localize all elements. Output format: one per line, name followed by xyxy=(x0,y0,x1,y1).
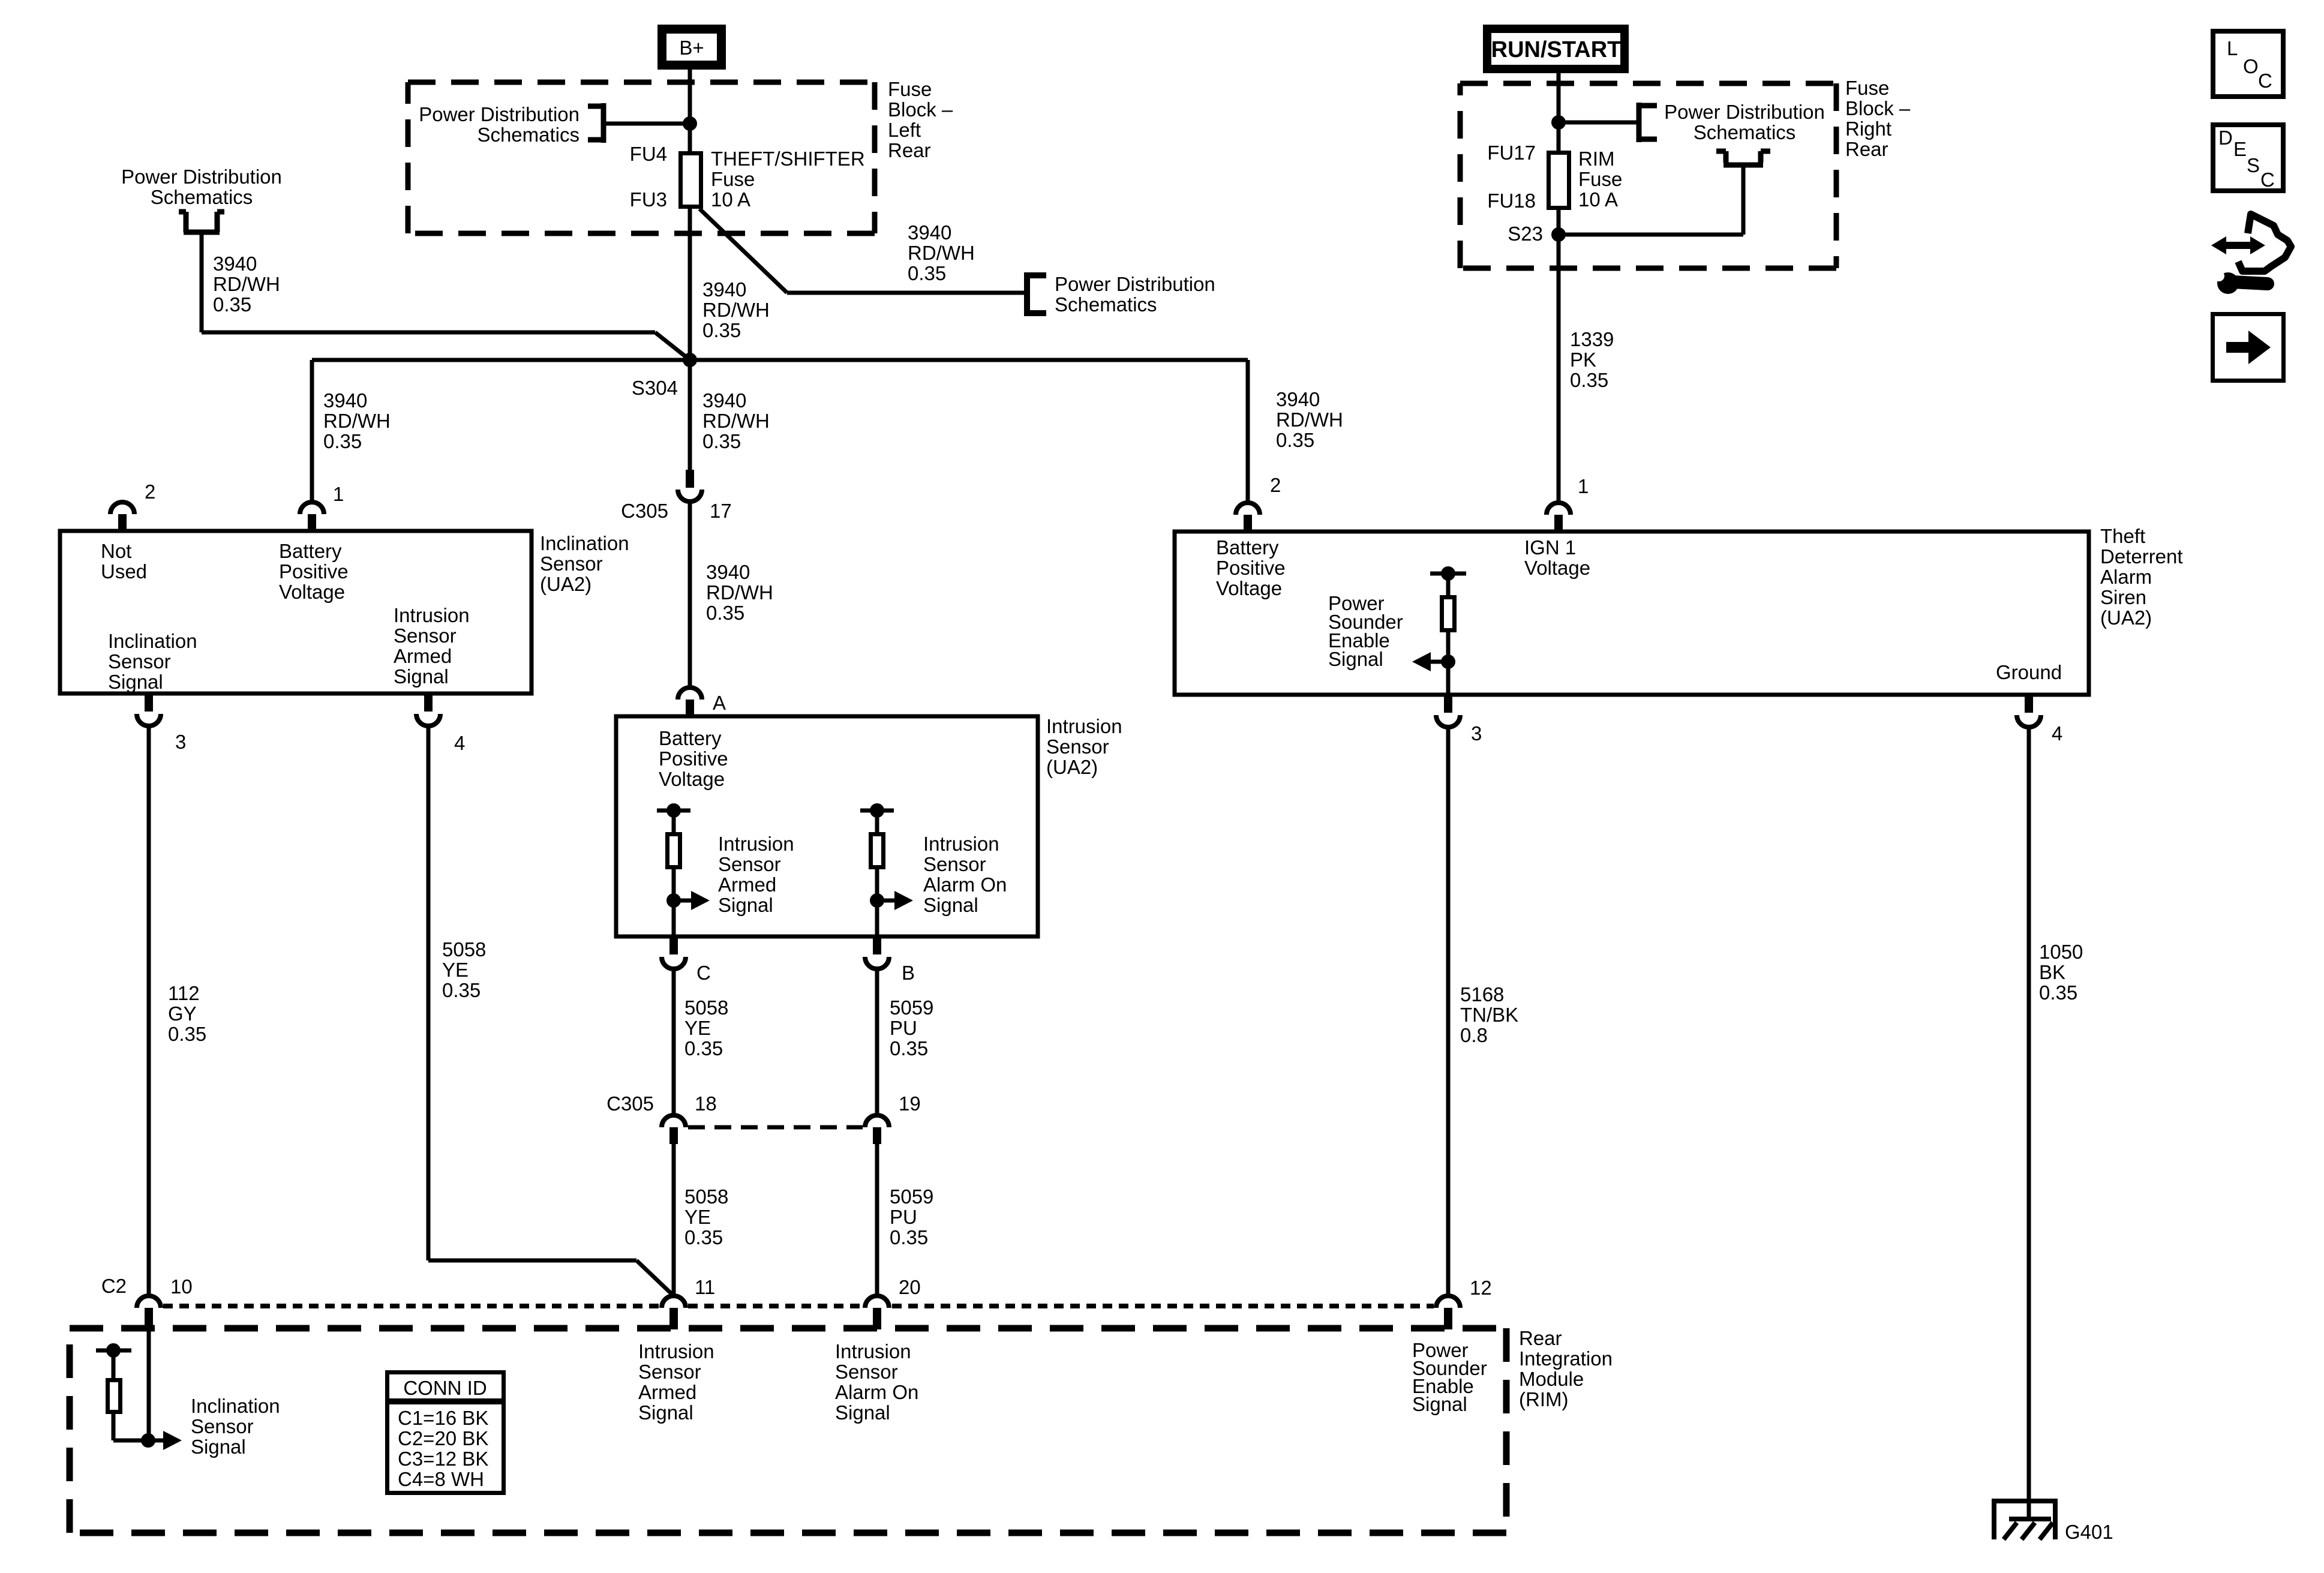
svg-text:0.35: 0.35 xyxy=(890,1226,928,1248)
svg-text:3940: 3940 xyxy=(702,389,746,412)
label FU4 xyxy=(630,143,667,165)
svg-text:Armed: Armed xyxy=(718,873,776,896)
wire FU18 to theft siren pin 1 xyxy=(1557,210,1561,502)
svg-text:Fuse: Fuse xyxy=(1845,77,1889,99)
label wire 5059 PU 0.35 (to pin 20) xyxy=(890,1185,933,1248)
svg-text:Alarm On: Alarm On xyxy=(923,873,1007,896)
svg-text:11: 11 xyxy=(695,1276,715,1298)
wire FU3 diagonal to power distribution schematics xyxy=(699,209,1024,293)
svg-text:0.35: 0.35 xyxy=(323,430,362,452)
junction dot at RUN/START stem xyxy=(1551,115,1566,130)
svg-text:Schematics: Schematics xyxy=(151,186,253,208)
svg-text:Positive: Positive xyxy=(659,748,728,770)
wire armed junction to pin C xyxy=(672,900,676,936)
label Not Used xyxy=(101,540,147,583)
svg-text:10: 10 xyxy=(170,1275,193,1298)
label Power Sounder Enable Signal (siren) xyxy=(1328,592,1403,670)
svg-text:B+: B+ xyxy=(679,37,704,59)
svg-text:FU4: FU4 xyxy=(630,143,667,165)
svg-text:C1=16 BK: C1=16 BK xyxy=(398,1407,488,1429)
svg-text:FU17: FU17 xyxy=(1487,142,1536,164)
label pin 10 xyxy=(170,1275,193,1298)
label pin 17 xyxy=(710,500,732,522)
svg-text:1339: 1339 xyxy=(1570,328,1614,350)
bracket power distribution schematics (mid right) xyxy=(1027,272,1046,316)
svg-text:10 A: 10 A xyxy=(711,188,750,211)
svg-text:YE: YE xyxy=(442,959,469,981)
label pin A xyxy=(713,692,726,714)
svg-text:Signal: Signal xyxy=(835,1401,890,1424)
label Power Distribution Schematics (left fuse block) xyxy=(419,103,580,146)
svg-text:Sensor: Sensor xyxy=(540,553,603,575)
svg-text:O: O xyxy=(2243,55,2259,77)
svg-text:Inclination: Inclination xyxy=(191,1395,280,1417)
svg-text:YE: YE xyxy=(684,1017,711,1039)
label Intrusion Sensor Armed Signal (internal) xyxy=(718,833,794,916)
svg-text:Not: Not xyxy=(101,540,131,562)
svg-text:3: 3 xyxy=(175,731,186,753)
svg-text:Power Distribution: Power Distribution xyxy=(419,103,580,125)
wire S304 left branch to inclination pin 1 xyxy=(312,360,690,502)
svg-text:Left: Left xyxy=(888,119,921,141)
label pin 3 (siren) xyxy=(1471,722,1482,745)
fuse block - right rear (dashed box) xyxy=(1460,83,1836,268)
svg-text:0.35: 0.35 xyxy=(684,1226,723,1248)
label Power Distribution Schematics (mid right) xyxy=(1055,273,1215,316)
wire RUN/START stem to bracket xyxy=(1559,121,1639,125)
svg-text:Used: Used xyxy=(101,560,147,583)
label wire 5058 YE 0.35 (from pin 4) xyxy=(442,938,486,1001)
svg-text:112: 112 xyxy=(168,982,200,1004)
svg-text:PU: PU xyxy=(890,1206,917,1228)
svg-text:Signal: Signal xyxy=(923,894,978,916)
svg-text:Intrusion: Intrusion xyxy=(638,1340,714,1362)
label S23 xyxy=(1508,223,1543,245)
label Inclination Sensor Signal (pin 3) xyxy=(108,630,197,693)
label wire 112 GY 0.35 xyxy=(168,982,206,1045)
ground G401 symbol xyxy=(1992,1501,2058,1539)
label pin C xyxy=(696,962,711,984)
svg-text:Intrusion: Intrusion xyxy=(718,833,794,855)
svg-text:0.35: 0.35 xyxy=(908,262,946,284)
svg-text:RD/WH: RD/WH xyxy=(1276,409,1343,431)
svg-text:Theft: Theft xyxy=(2100,525,2145,547)
label pin 4 (siren) xyxy=(2052,722,2062,745)
svg-text:2: 2 xyxy=(1270,474,1281,496)
connector pin B intrusion sensor xyxy=(865,936,889,969)
label C305 (pin 18) xyxy=(606,1092,654,1115)
svg-text:THEFT/SHIFTER: THEFT/SHIFTER xyxy=(711,148,865,170)
label IGN 1 Voltage xyxy=(1524,536,1590,579)
svg-text:Intrusion: Intrusion xyxy=(835,1340,911,1362)
wire C305-17 to intrusion sensor pin A xyxy=(688,502,692,688)
label wire 3940 RD/WH 0.35 (top left) xyxy=(213,253,280,316)
power symbol B+ (battery positive) xyxy=(662,29,722,65)
label Battery Positive Voltage (inclination) xyxy=(279,540,349,603)
label FU3 xyxy=(630,188,667,211)
bracket power distribution schematics (top left) xyxy=(179,212,224,232)
label wire 5059 PU 0.35 (pin B) xyxy=(890,996,933,1059)
wire siren pin 3 to RIM pin 12 xyxy=(1446,727,1451,1296)
svg-text:S: S xyxy=(2247,154,2260,176)
wire pin C to C305 pin 18 xyxy=(672,969,676,1116)
connector pin 1 siren xyxy=(1547,503,1571,532)
label C305 (pin 17) xyxy=(621,500,668,522)
svg-text:Schematics: Schematics xyxy=(477,124,580,146)
svg-text:0.35: 0.35 xyxy=(2039,981,2077,1004)
svg-text:FU3: FU3 xyxy=(630,188,667,211)
svg-text:0.35: 0.35 xyxy=(702,319,741,341)
label pin 18 xyxy=(695,1092,717,1115)
svg-text:Power Distribution: Power Distribution xyxy=(1664,101,1825,123)
fuse FU17/FU18 RIM 10A xyxy=(1549,153,1569,208)
label wire 3940 RD/WH 0.35 (left branch) xyxy=(323,389,391,452)
svg-text:10 A: 10 A xyxy=(1578,188,1618,211)
junction dot + arrow armed signal xyxy=(666,891,710,910)
junction dot + arrow inclination sensor signal (RIM) xyxy=(141,1431,182,1450)
svg-text:L: L xyxy=(2227,37,2238,59)
svg-text:Ground: Ground xyxy=(1996,661,2062,683)
svg-text:B: B xyxy=(902,962,915,984)
svg-text:G401: G401 xyxy=(2065,1521,2113,1543)
svg-text:Signal: Signal xyxy=(1328,648,1383,670)
resistor internal (armed signal) xyxy=(657,803,690,900)
label FU17 xyxy=(1487,142,1536,164)
svg-text:C2=20 BK: C2=20 BK xyxy=(398,1427,488,1449)
label wire 3940 RD/WH 0.35 (FU3 branch) xyxy=(908,221,975,284)
svg-text:Sensor: Sensor xyxy=(718,853,781,875)
svg-text:Deterrent: Deterrent xyxy=(2100,545,2183,568)
svg-text:Signal: Signal xyxy=(191,1436,246,1458)
svg-text:5059: 5059 xyxy=(890,996,933,1019)
svg-text:RUN/START: RUN/START xyxy=(1491,37,1622,62)
svg-text:E: E xyxy=(2233,138,2247,160)
svg-text:2: 2 xyxy=(145,481,155,503)
dotted harness line C2 (pins 10-12) xyxy=(163,1304,1434,1308)
wire bracket down to S23 xyxy=(1559,165,1743,235)
label wire 3940 RD/WH 0.35 (trunk below S304) xyxy=(702,389,770,452)
svg-text:C: C xyxy=(2258,70,2272,92)
label pin 2 (inclination) xyxy=(145,481,155,503)
svg-text:Sensor: Sensor xyxy=(923,853,986,875)
wire bracket to S304 xyxy=(202,235,690,360)
connector RIM pin 20 xyxy=(865,1296,889,1329)
label wire 3940 RD/WH 0.35 (trunk upper) xyxy=(702,278,770,341)
svg-text:Power Distribution: Power Distribution xyxy=(1055,273,1215,295)
resistor internal RIM (inclination sensor signal) xyxy=(96,1343,148,1440)
svg-text:Positive: Positive xyxy=(279,560,349,583)
connector C305 pin 19 xyxy=(865,1115,889,1144)
svg-text:Signal: Signal xyxy=(1412,1393,1467,1415)
svg-text:S304: S304 xyxy=(632,377,678,399)
label Intrusion Sensor Alarm On Signal (RIM pin 20) xyxy=(835,1340,918,1424)
svg-text:17: 17 xyxy=(710,500,732,522)
svg-text:Intrusion: Intrusion xyxy=(1046,715,1122,737)
svg-text:Signal: Signal xyxy=(108,671,163,693)
svg-text:RIM: RIM xyxy=(1578,148,1615,170)
svg-text:Fuse: Fuse xyxy=(888,78,932,100)
svg-text:Sensor: Sensor xyxy=(108,650,171,673)
label wire 1339 PK 0.35 xyxy=(1570,328,1614,391)
svg-text:Intrusion: Intrusion xyxy=(394,604,470,626)
svg-text:1050: 1050 xyxy=(2039,941,2083,963)
label Fuse Block - Right Rear xyxy=(1845,77,1911,160)
svg-text:Schematics: Schematics xyxy=(1694,121,1796,143)
intrusion sensor (UA2) box xyxy=(616,716,1038,936)
svg-text:Power Distribution: Power Distribution xyxy=(121,166,282,188)
svg-text:Integration: Integration xyxy=(1519,1347,1613,1370)
svg-text:5058: 5058 xyxy=(442,938,486,960)
connector RIM pin 11 xyxy=(662,1296,686,1329)
svg-text:Sensor: Sensor xyxy=(394,625,457,647)
svg-text:Siren: Siren xyxy=(2100,586,2146,608)
wire pin B to C305 pin 19 xyxy=(875,969,879,1116)
bracket to power distribution schematics (left fuse block) xyxy=(588,103,603,143)
junction dot + arrow power sounder enable (points left) xyxy=(1412,652,1455,671)
svg-text:Sensor: Sensor xyxy=(835,1361,898,1383)
connector pin A intrusion sensor xyxy=(678,688,702,716)
bracket to power distribution schematics (right fuse block) xyxy=(1639,103,1657,142)
svg-text:Signal: Signal xyxy=(638,1401,693,1424)
svg-text:19: 19 xyxy=(899,1092,921,1115)
svg-text:3940: 3940 xyxy=(908,221,951,244)
wire pin 3 to RIM C2 pin 10 xyxy=(147,726,151,1296)
svg-text:PU: PU xyxy=(890,1017,917,1039)
wire trunk FU3 to C305 pin 17 xyxy=(688,209,692,470)
svg-text:Signal: Signal xyxy=(394,665,449,688)
svg-text:RD/WH: RD/WH xyxy=(702,299,770,321)
svg-text:3940: 3940 xyxy=(702,278,746,301)
theft deterrent alarm siren (UA2) box xyxy=(1175,532,2089,695)
svg-text:0.35: 0.35 xyxy=(442,979,481,1001)
rear integration module (RIM) dashed box xyxy=(70,1328,1506,1533)
svg-text:0.35: 0.35 xyxy=(706,602,744,624)
label THEFT/SHIFTER Fuse 10 A xyxy=(711,148,865,211)
svg-text:0.35: 0.35 xyxy=(168,1023,206,1045)
label Theft Deterrent Alarm Siren (UA2) xyxy=(2100,525,2183,629)
svg-text:C: C xyxy=(2260,169,2275,191)
svg-text:Rear: Rear xyxy=(888,139,931,161)
label wire 1050 BK 0.35 xyxy=(2039,941,2083,1004)
svg-text:RD/WH: RD/WH xyxy=(702,410,770,432)
label pin 4 (inclination) xyxy=(454,732,465,754)
svg-text:RD/WH: RD/WH xyxy=(706,581,773,604)
svg-text:C305: C305 xyxy=(621,500,668,522)
svg-text:20: 20 xyxy=(899,1276,921,1298)
connector pin 4 inclination sensor xyxy=(416,694,440,726)
wire pin 4 to RIM pin 11 xyxy=(428,726,674,1296)
svg-text:0.35: 0.35 xyxy=(213,293,251,316)
connector RIM pin 12 xyxy=(1436,1296,1460,1329)
svg-text:CONN ID: CONN ID xyxy=(403,1377,487,1399)
svg-text:5168: 5168 xyxy=(1460,983,1504,1005)
svg-text:3940: 3940 xyxy=(1276,388,1320,410)
svg-text:18: 18 xyxy=(695,1092,717,1115)
svg-text:1: 1 xyxy=(333,483,344,505)
label pin 20 xyxy=(899,1276,921,1298)
svg-text:Block –: Block – xyxy=(888,98,953,121)
label RIM Fuse 10 A xyxy=(1578,148,1622,211)
label Intrusion Sensor (UA2) xyxy=(1046,715,1122,778)
resistor internal (power sounder) xyxy=(1430,566,1466,662)
wire RUN/START to fuse FU17 xyxy=(1557,73,1561,152)
label Intrusion Sensor Armed Signal (RIM pin 11) xyxy=(638,1340,714,1424)
svg-text:C3=12 BK: C3=12 BK xyxy=(398,1448,488,1470)
label pin 19 xyxy=(899,1092,921,1115)
label Inclination Sensor Signal (RIM) xyxy=(191,1395,280,1458)
label Power Distribution Schematics (right fuse block) xyxy=(1664,101,1825,143)
connector C305 pin 18 xyxy=(662,1115,686,1144)
wire alarm junction to pin B xyxy=(875,900,879,936)
svg-text:Block –: Block – xyxy=(1845,97,1911,119)
svg-text:Right: Right xyxy=(1845,118,1891,140)
svg-text:(UA2): (UA2) xyxy=(2100,607,2152,629)
label Inclination Sensor (UA2) xyxy=(540,532,629,595)
svg-text:C: C xyxy=(696,962,711,984)
svg-text:Module: Module xyxy=(1519,1368,1584,1390)
svg-text:PK: PK xyxy=(1570,349,1596,371)
svg-text:5059: 5059 xyxy=(890,1185,933,1208)
connector pin 1 inclination sensor xyxy=(300,502,324,531)
svg-text:3: 3 xyxy=(1471,722,1482,745)
svg-text:TN/BK: TN/BK xyxy=(1460,1004,1518,1026)
svg-text:0.35: 0.35 xyxy=(702,430,741,452)
label wire 5168 TN/BK 0.8 xyxy=(1460,983,1518,1046)
label C2 xyxy=(101,1275,127,1297)
svg-text:Battery: Battery xyxy=(1216,536,1279,559)
svg-text:S23: S23 xyxy=(1508,223,1543,245)
label wire 5058 YE 0.35 (pin C) xyxy=(684,996,728,1059)
connector C305 pin 17 xyxy=(678,470,702,502)
svg-text:Rear: Rear xyxy=(1519,1327,1562,1349)
junction dot at B+ stem / bracket wire xyxy=(683,116,697,131)
label Intrusion Sensor Armed Signal (pin 4) xyxy=(394,604,470,688)
icon DESC box xyxy=(2213,125,2283,191)
svg-text:Voltage: Voltage xyxy=(279,581,345,603)
label Rear Integration Module (RIM) xyxy=(1519,1327,1613,1410)
svg-text:Rear: Rear xyxy=(1845,138,1888,160)
icon forward arrow box xyxy=(2213,314,2284,381)
svg-text:RD/WH: RD/WH xyxy=(908,242,975,264)
connector pin 4 siren xyxy=(2017,695,2041,727)
svg-text:Voltage: Voltage xyxy=(1216,577,1282,599)
label S304 xyxy=(632,377,678,399)
connector pin 3 siren xyxy=(1436,695,1460,727)
svg-text:C2: C2 xyxy=(101,1275,127,1297)
wire S304 right branch to siren pin 2 xyxy=(690,360,1248,502)
wire sounder junction to pin 3 xyxy=(1446,662,1451,695)
svg-text:Sensor: Sensor xyxy=(1046,736,1109,758)
label pin 11 xyxy=(695,1276,715,1298)
fuse FU4/FU3 THEFT/SHIFTER 10A xyxy=(681,154,701,207)
inclination sensor (UA2) box xyxy=(60,531,532,694)
svg-text:Battery: Battery xyxy=(659,727,722,749)
svg-text:A: A xyxy=(713,692,726,714)
connector pin 3 inclination sensor xyxy=(137,694,161,726)
label Power Sounder Enable Signal (RIM pin 12) xyxy=(1412,1339,1487,1415)
svg-text:Voltage: Voltage xyxy=(659,768,725,790)
label Battery Positive Voltage (intrusion) xyxy=(659,727,728,790)
svg-text:0.35: 0.35 xyxy=(684,1037,723,1059)
svg-text:Alarm: Alarm xyxy=(2100,566,2152,588)
label pin 2 (siren) xyxy=(1270,474,1281,496)
label Intrusion Sensor Alarm On Signal (internal) xyxy=(923,833,1007,916)
svg-text:Positive: Positive xyxy=(1216,557,1286,579)
svg-text:(RIM): (RIM) xyxy=(1519,1388,1568,1410)
resistor internal (alarm on signal) xyxy=(860,803,894,900)
label pin 1 (inclination) xyxy=(333,483,344,505)
wire bracket to B+ stem xyxy=(603,122,690,126)
svg-text:3940: 3940 xyxy=(323,389,367,412)
svg-text:Signal: Signal xyxy=(718,894,773,916)
svg-text:(UA2): (UA2) xyxy=(540,573,591,595)
svg-text:Armed: Armed xyxy=(394,645,452,667)
svg-text:0.35: 0.35 xyxy=(1276,429,1314,451)
svg-text:BK: BK xyxy=(2039,961,2065,983)
svg-text:Inclination: Inclination xyxy=(108,630,197,652)
svg-text:C305: C305 xyxy=(606,1092,654,1115)
fuse block - left rear (dashed box) xyxy=(408,82,875,233)
svg-text:5058: 5058 xyxy=(684,1185,728,1208)
connector RIM pin 10 (C2) xyxy=(137,1296,161,1329)
label pin 1 (siren) xyxy=(1578,475,1589,497)
power symbol RUN/START xyxy=(1487,29,1625,69)
svg-text:FU18: FU18 xyxy=(1487,190,1536,212)
wire C305-19 to RIM pin 20 xyxy=(875,1144,879,1296)
svg-text:YE: YE xyxy=(684,1206,711,1228)
svg-text:Voltage: Voltage xyxy=(1524,557,1590,579)
svg-text:0.8: 0.8 xyxy=(1460,1024,1488,1046)
connector pin 2 inclination sensor xyxy=(110,502,134,531)
label Ground (siren) xyxy=(1996,661,2062,683)
svg-text:4: 4 xyxy=(2052,722,2062,745)
icon vehicle communication / repair (double arrow, outline, wrench) xyxy=(2211,214,2291,294)
connector pin C intrusion sensor xyxy=(662,936,686,969)
wire C305-18 to RIM pin 11 xyxy=(672,1144,676,1296)
connector pin 2 siren xyxy=(1236,503,1260,532)
svg-text:Battery: Battery xyxy=(279,540,342,562)
label wire 3940 RD/WH 0.35 (right branch) xyxy=(1276,388,1343,451)
dashed connector tie line C305 18-19 xyxy=(688,1125,863,1130)
CONN ID table xyxy=(385,1373,506,1493)
svg-text:5058: 5058 xyxy=(684,996,728,1019)
node S304 junction dot xyxy=(683,353,697,367)
svg-text:RD/WH: RD/WH xyxy=(323,410,391,432)
label pin 12 xyxy=(1470,1277,1492,1299)
label pin B xyxy=(902,962,915,984)
svg-text:Armed: Armed xyxy=(638,1381,696,1403)
svg-text:Fuse: Fuse xyxy=(1578,168,1622,190)
wire siren pin 4 to ground G401 xyxy=(2027,727,2031,1519)
label wire 3940 RD/WH 0.35 (to intrusion sensor) xyxy=(706,561,773,624)
wire RIM pin 10 internal xyxy=(147,1329,151,1440)
label Power Distribution Schematics (top left) xyxy=(121,166,282,208)
label wire 5058 YE 0.35 (to pin 11) xyxy=(684,1185,728,1248)
junction dot S23 xyxy=(1551,227,1566,242)
svg-text:3940: 3940 xyxy=(213,253,257,275)
svg-text:GY: GY xyxy=(168,1002,197,1025)
label FU18 xyxy=(1487,190,1536,212)
svg-text:3940: 3940 xyxy=(706,561,750,583)
wire B+ to fuse FU4 xyxy=(688,70,692,152)
junction dot + arrow alarm on signal xyxy=(870,891,913,910)
svg-text:Intrusion: Intrusion xyxy=(923,833,999,855)
svg-text:Alarm On: Alarm On xyxy=(835,1381,918,1403)
svg-text:D: D xyxy=(2218,127,2233,149)
bracket (lower) power distribution schematics return xyxy=(1716,151,1770,165)
svg-text:0.35: 0.35 xyxy=(890,1037,928,1059)
label Battery Positive Voltage (siren) xyxy=(1216,536,1286,599)
